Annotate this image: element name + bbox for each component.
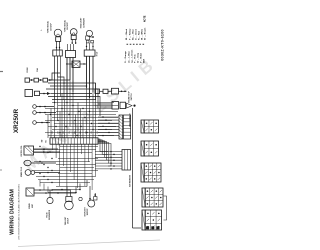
connector block 2	[141, 141, 144, 156]
svg-text:BlY: BlY	[69, 131, 71, 133]
main harness vertical	[132, 108, 134, 228]
stop lamp lead dots	[89, 198, 91, 200]
wire color code legend	[124, 15, 146, 63]
svg-text:Lb ... L.Blue: Lb ... L.Blue	[128, 50, 130, 63]
mesh junction dots	[54, 102, 55, 103]
sub connector dots	[110, 151, 112, 153]
lamp R base	[71, 35, 76, 39]
svg-text:12V60/55W: 12V60/55W	[83, 18, 85, 28]
svg-text:O ... Orange: O ... Orange	[124, 50, 127, 63]
small junction circle	[79, 197, 82, 200]
svg-text:NOTE: NOTE	[144, 15, 146, 22]
svg-text:HEADLIGHT: HEADLIGHT	[80, 17, 83, 28]
lower right chain	[98, 103, 112, 105]
condenser	[24, 160, 31, 165]
headlight lamp	[86, 30, 92, 36]
bottom bus wires	[56, 186, 87, 188]
sub connector block	[122, 150, 131, 171]
svg-text:10A: 10A	[36, 68, 39, 72]
svg-text:12V32CP: 12V32CP	[67, 21, 69, 29]
ignition coil	[24, 146, 34, 155]
wire headlight down	[86, 56, 88, 88]
svg-text:BlY: BlY	[58, 131, 60, 133]
lamp R turn signal	[70, 29, 77, 36]
bottom junction dots	[75, 192, 77, 194]
ignition switch	[25, 90, 33, 97]
wire lamp A down	[54, 56, 56, 100]
svg-text:0030Z-KT0-6100: 0030Z-KT0-6100	[161, 29, 165, 61]
svg-text:Gr ... Gray: Gr ... Gray	[136, 52, 139, 63]
upper bus dots	[63, 82, 65, 84]
wire lamp B leads	[71, 40, 73, 45]
connector block 3	[141, 163, 144, 182]
left edge mark 2	[0, 169, 2, 171]
svg-text:BlY: BlY	[86, 131, 88, 133]
connector block 4	[142, 188, 145, 207]
svg-text:IGNITION COIL: IGNITION COIL	[21, 145, 23, 156]
svg-text:V ... Violet: V ... Violet	[139, 53, 142, 63]
taillight lamp	[66, 197, 72, 202]
svg-text:BlY: BlY	[97, 131, 99, 133]
bullet connector row 1	[33, 105, 37, 109]
svg-text:WIRE HARNESS: WIRE HARNESS	[128, 113, 131, 127]
svg-text:TURN SIGNAL: TURN SIGNAL	[47, 20, 50, 33]
svg-text:Bl/R: Bl/R	[144, 58, 146, 63]
svg-text:BlY: BlY	[80, 131, 82, 133]
bracket	[164, 196, 167, 220]
svg-text:XR250R: XR250R	[13, 109, 20, 134]
wire chain 1	[30, 79, 35, 81]
connector B	[66, 51, 76, 58]
main connector block	[119, 115, 123, 139]
wires into main block	[98, 116, 119, 118]
svg-text:Y .... Yellow: Y .... Yellow	[129, 28, 131, 40]
svg-text:PULSE: PULSE	[47, 212, 49, 217]
svg-text:SWITCH: SWITCH	[131, 93, 133, 100]
svg-text:BlY: BlY	[63, 131, 65, 133]
wire lamp B down	[66, 58, 68, 101]
svg-text:Lg ... L.Green: Lg ... L.Green	[130, 49, 133, 63]
svg-text:WIRING DIAGRAM: WIRING DIAGRAM	[10, 189, 16, 235]
pulse generator	[47, 197, 53, 203]
svg-text:FUSE: FUSE	[27, 67, 29, 73]
spark plug	[25, 170, 31, 176]
strip fanout down	[52, 144, 54, 150]
wire mesh verticals	[47, 115, 49, 138]
svg-text:12V3CP: 12V3CP	[68, 217, 70, 224]
svg-text:BlY: BlY	[91, 131, 93, 133]
scan edge bottom	[18, 240, 160, 247]
lower bus wires	[60, 146, 98, 148]
connector block 1	[141, 120, 144, 133]
connector A	[53, 50, 63, 56]
CDI unit	[26, 188, 34, 196]
turn signal relay	[72, 61, 80, 67]
bends bottom	[76, 180, 87, 193]
main connector strip	[50, 138, 98, 144]
bullet connector row 2	[33, 111, 37, 115]
lower bus dots	[39, 146, 40, 147]
svg-text:SUB HARNESS: SUB HARNESS	[128, 174, 131, 187]
connector C	[84, 50, 95, 56]
left edge mark 1	[0, 71, 3, 73]
lower bus verticals	[47, 187, 49, 193]
engine stop switch chain	[95, 89, 100, 94]
wire chain 2	[40, 93, 48, 95]
svg-text:STOPLIGHT: STOPLIGHT	[84, 207, 86, 216]
wire mesh horizontals	[52, 102, 114, 104]
wire lamp A leads	[56, 41, 58, 50]
arrow connector	[127, 103, 133, 108]
wire upper bus	[58, 77, 65, 100]
svg-text:1984 XR250R FLAT LANE (U.S.A.): 1984 XR250R FLAT LANE (U.S.A.) AND CALIF…	[18, 183, 21, 240]
lamp L turn signal	[54, 29, 62, 37]
relay leads	[66, 63, 72, 65]
svg-text:BlY: BlY	[52, 131, 54, 133]
wires CDI	[34, 189, 70, 191]
svg-text:12V32CP: 12V32CP	[50, 22, 52, 30]
stop lamp	[88, 200, 95, 207]
lamp L base	[56, 37, 61, 42]
svg-text:SPARK: SPARK	[28, 202, 31, 209]
connector block 5 pins	[146, 227, 149, 230]
svg-text:Br .... Brown: Br .... Brown	[144, 27, 147, 40]
wire coil leads	[34, 148, 59, 150]
svg-text:HI LO: HI LO	[97, 51, 99, 56]
connector block 5	[142, 210, 145, 230]
svg-text:R .... Red: R .... Red	[138, 30, 140, 40]
svg-text:BlY: BlY	[74, 131, 76, 133]
wires into sub connector	[95, 151, 122, 153]
strip fanout right	[98, 139, 108, 152]
headlight pins	[86, 40, 89, 43]
svg-text:G .... Green: G .... Green	[134, 28, 137, 40]
svg-text:GY: GY	[44, 151, 46, 153]
svg-text:P ... Pink: P ... Pink	[134, 54, 136, 63]
svg-text:W .... White: W .... White	[140, 28, 143, 40]
bullet connector row 3	[33, 121, 37, 125]
svg-text:12V23CP: 12V23CP	[87, 208, 89, 216]
svg-text:Bl .... Black: Bl .... Black	[126, 28, 128, 40]
svg-text:TURN SIGNAL: TURN SIGNAL	[63, 19, 66, 32]
svg-text:Bu .... Blue: Bu .... Blue	[132, 28, 134, 40]
connector chain 1	[25, 78, 30, 82]
